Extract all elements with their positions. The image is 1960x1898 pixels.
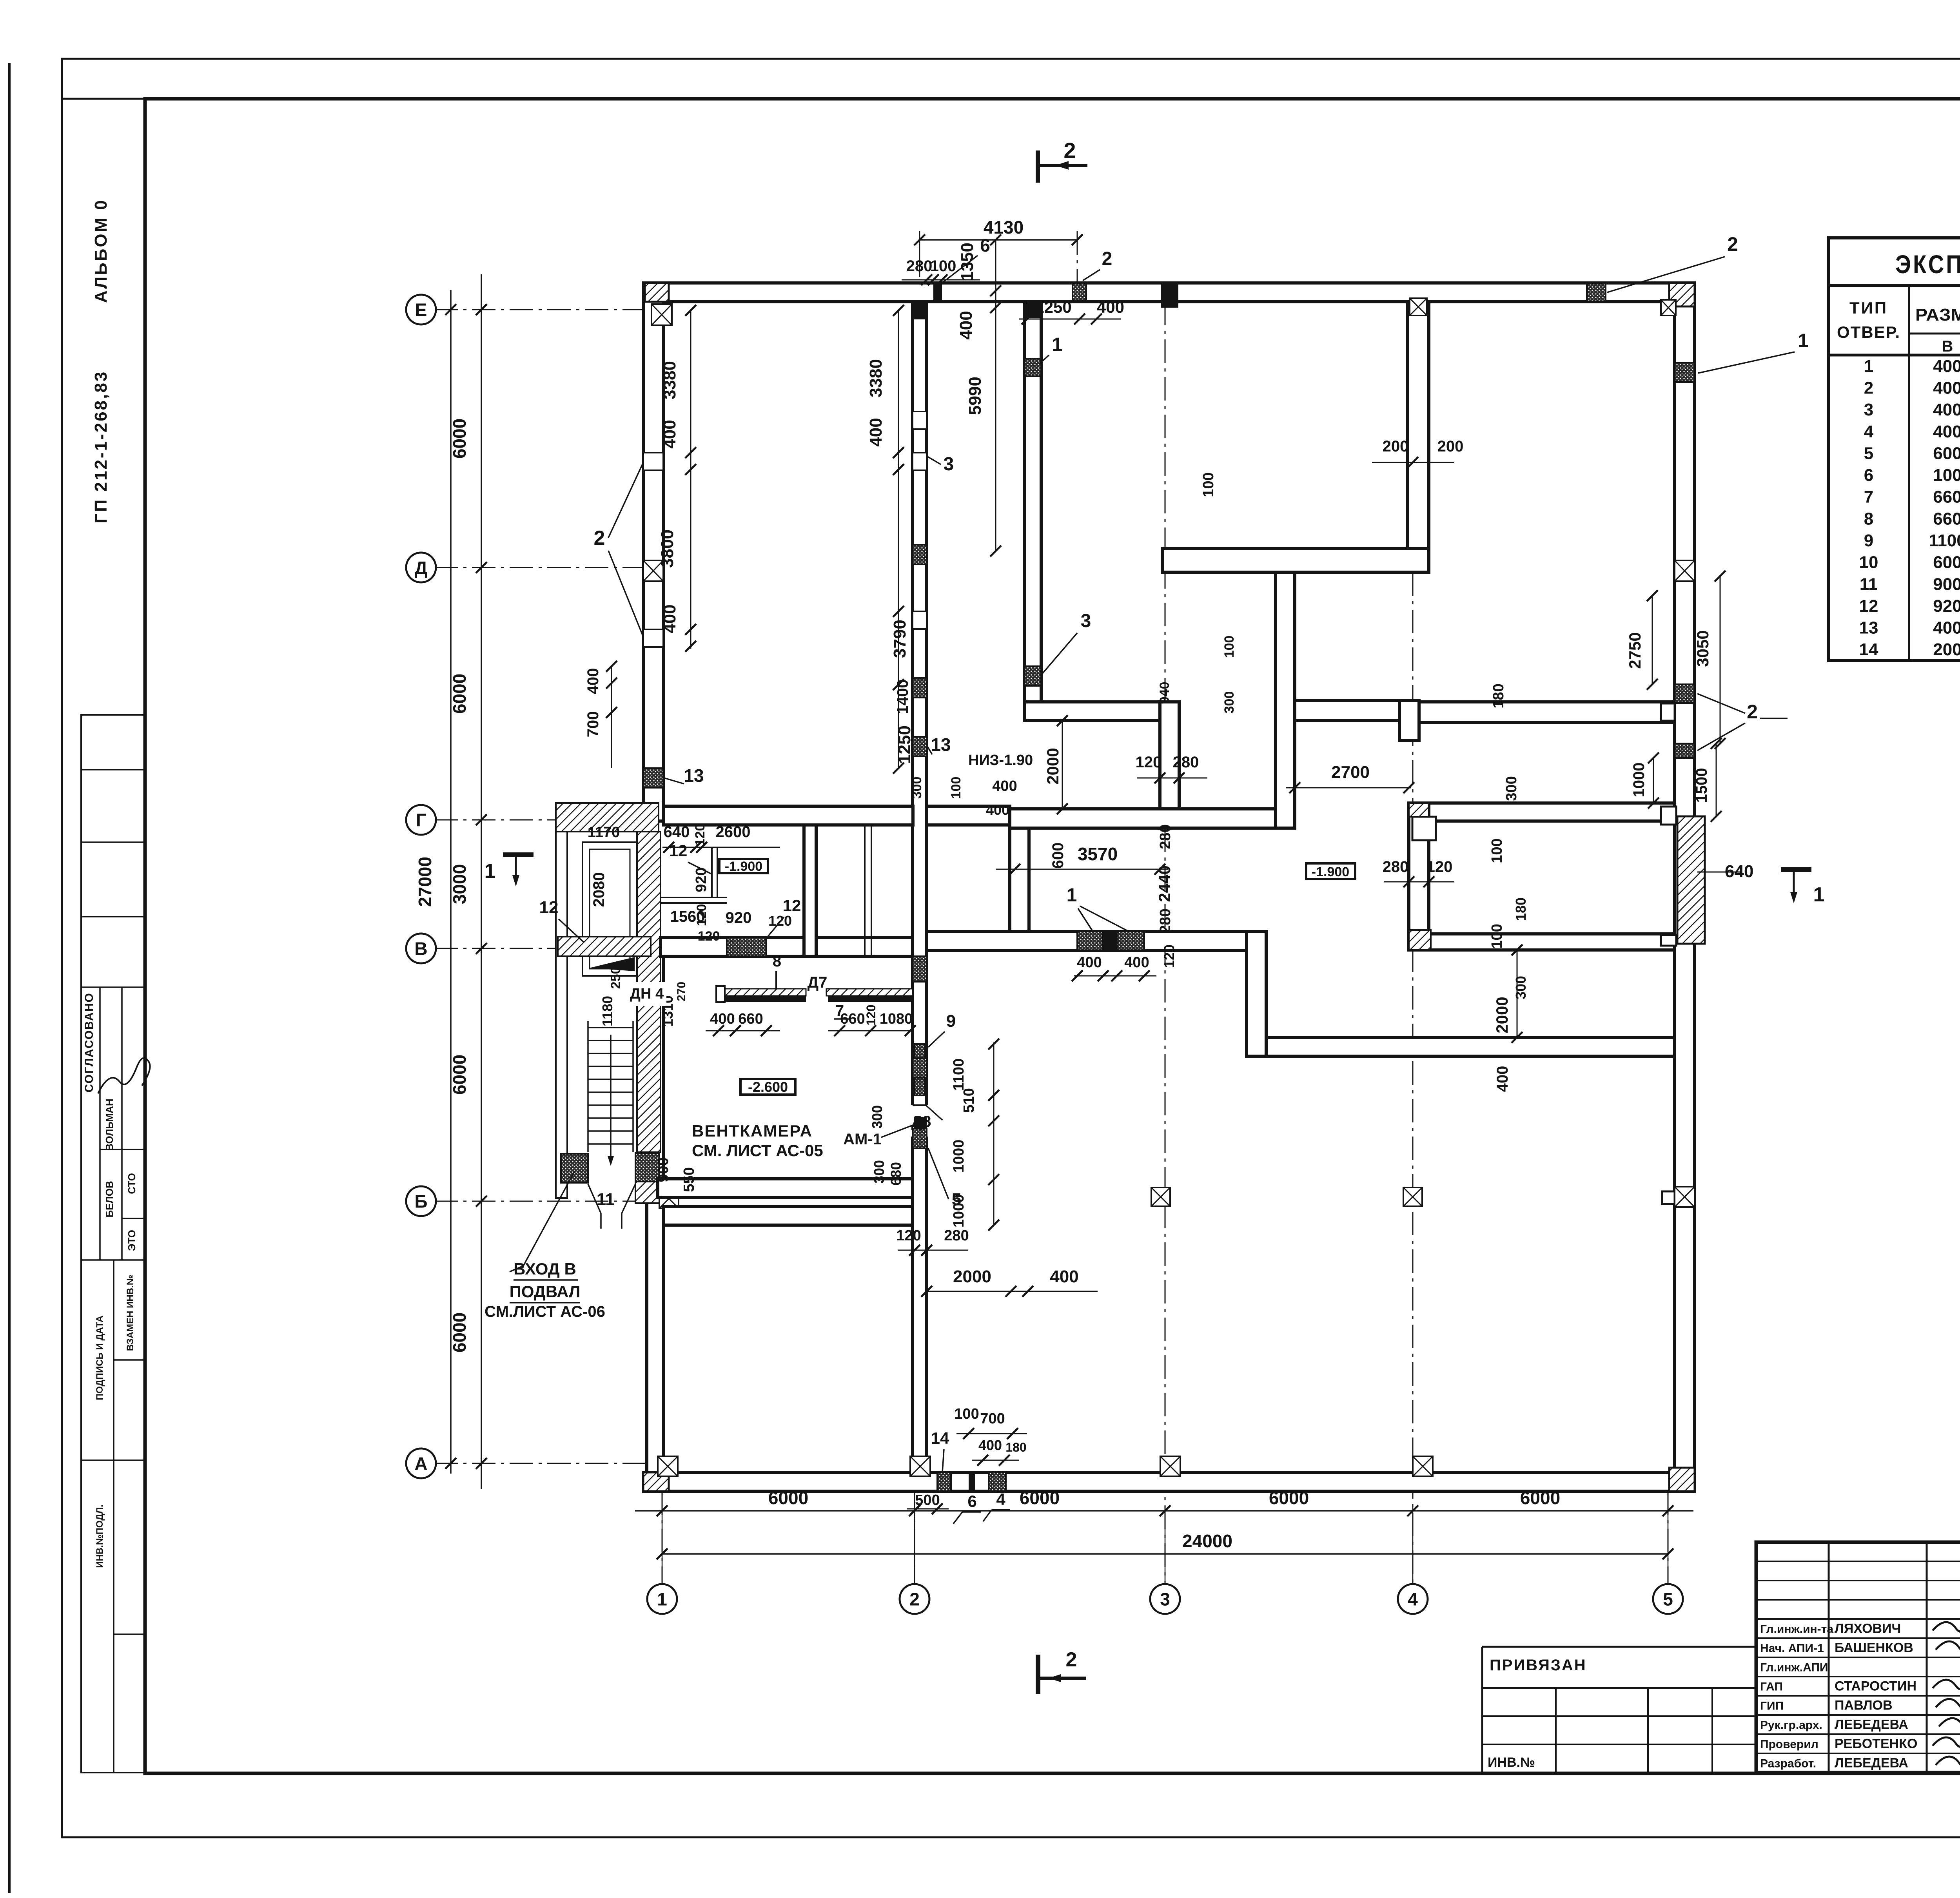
axis dash-dot lines vertical (1165, 302, 1166, 1583)
svg-text:Д7: Д7 (808, 974, 828, 991)
svg-text:400: 400 (1933, 378, 1960, 397)
svg-text:12: 12 (783, 896, 801, 915)
svg-text:2: 2 (909, 1589, 920, 1610)
svg-text:200: 200 (1437, 438, 1464, 455)
svg-text:Б: Б (414, 1191, 427, 1212)
svg-text:1180: 1180 (599, 996, 615, 1026)
bottom dimension chain (635, 1510, 1693, 1512)
vent room partition b (864, 825, 866, 956)
svg-text:400: 400 (1933, 400, 1960, 419)
bottom exterior wall (643, 1472, 1695, 1491)
small room lines (661, 897, 727, 898)
vent duct bars 7 8 (721, 989, 806, 996)
svg-text:ОТВЕР.: ОТВЕР. (1837, 323, 1900, 341)
svg-text:2: 2 (1102, 248, 1112, 269)
hall top wall left part (663, 1206, 913, 1225)
svg-text:ЛЕБЕДЕВА: ЛЕБЕДЕВА (1835, 1756, 1908, 1771)
svg-text:300: 300 (1513, 976, 1529, 999)
svg-text:120: 120 (1136, 754, 1162, 771)
svg-text:1: 1 (485, 860, 496, 883)
svg-text:900: 900 (655, 1157, 671, 1182)
porch room outline (583, 842, 637, 976)
svg-text:2000: 2000 (1044, 748, 1062, 784)
svg-text:6000: 6000 (449, 674, 470, 714)
svg-text:6: 6 (980, 235, 990, 256)
svg-text:Нач. АПИ-1: Нач. АПИ-1 (1760, 1642, 1824, 1655)
svg-text:12: 12 (669, 841, 688, 860)
svg-text:ЭТО: ЭТО (126, 1230, 138, 1251)
svg-text:ГАП: ГАП (1760, 1680, 1783, 1693)
hall top wall B (1266, 1037, 1675, 1056)
svg-text:120: 120 (1161, 944, 1177, 968)
right wall stubs (1661, 703, 1675, 721)
svg-text:1: 1 (1798, 330, 1809, 351)
svg-text:400: 400 (992, 778, 1017, 794)
stamp column box (81, 715, 145, 1773)
svg-text:1080: 1080 (880, 1011, 913, 1027)
svg-text:400: 400 (1097, 298, 1124, 316)
svg-text:СТАРОСТИН: СТАРОСТИН (1835, 1679, 1916, 1694)
top wall opening type2 (1587, 283, 1606, 302)
svg-text:900: 900 (1933, 575, 1960, 594)
stamp signature (98, 1058, 150, 1093)
svg-text:Д8: Д8 (911, 1113, 931, 1130)
svg-text:СТО: СТО (126, 1173, 138, 1194)
svg-text:11: 11 (597, 1190, 615, 1209)
svg-text:Г: Г (416, 810, 426, 830)
svg-text:400: 400 (1933, 422, 1960, 441)
svg-text:120: 120 (694, 904, 709, 926)
vent chamber bottom wall (658, 1179, 913, 1198)
columns (1151, 1187, 1170, 1206)
svg-text:660: 660 (840, 1011, 865, 1027)
svg-text:4: 4 (1408, 1589, 1418, 1610)
svg-text:200: 200 (1383, 438, 1409, 455)
svg-text:СМ.ЛИСТ АС-06: СМ.ЛИСТ АС-06 (485, 1303, 605, 1320)
svg-text:13: 13 (684, 765, 704, 786)
svg-text:ТИП: ТИП (1849, 299, 1888, 317)
svg-text:5990: 5990 (965, 377, 985, 415)
svg-text:400: 400 (584, 668, 602, 694)
svg-text:СМ. ЛИСТ АС-05: СМ. ЛИСТ АС-05 (692, 1141, 823, 1160)
svg-text:300: 300 (869, 1105, 885, 1129)
bottom wall openings (937, 1472, 951, 1491)
hall jog wall (1247, 932, 1266, 1056)
svg-text:ВХОД В: ВХОД В (514, 1260, 576, 1278)
svg-text:660: 660 (1933, 488, 1960, 507)
svg-text:300: 300 (871, 1160, 887, 1184)
svg-text:100: 100 (949, 777, 964, 799)
svg-text:2: 2 (1063, 138, 1076, 163)
svg-text:2440: 2440 (1155, 865, 1174, 902)
svg-text:ПАВЛОВ: ПАВЛОВ (1835, 1698, 1893, 1713)
stair bottom blocks (561, 1154, 588, 1183)
svg-text:ЭКСПЛИКАЦИЯ ОТВЕРСТИЙ: ЭКСПЛИКАЦИЯ ОТВЕРСТИЙ (1895, 249, 1960, 279)
svg-text:3000: 3000 (449, 864, 470, 904)
svg-text:13: 13 (931, 734, 951, 755)
svg-text:940: 940 (1157, 682, 1172, 704)
svg-text:13: 13 (1859, 618, 1878, 638)
svg-text:680: 680 (888, 1162, 904, 1186)
svg-text:3: 3 (944, 454, 954, 475)
svg-text:9: 9 (946, 1012, 956, 1031)
svg-text:1350: 1350 (958, 243, 977, 281)
top dim 4130 (920, 239, 1077, 241)
right room inner duct (1412, 817, 1436, 840)
svg-text:180: 180 (1490, 683, 1507, 708)
svg-text:920: 920 (1933, 596, 1960, 616)
section flag 1 left (503, 852, 534, 857)
svg-text:ЛЕБЕДЕВА: ЛЕБЕДЕВА (1835, 1717, 1908, 1732)
wall V5 (1010, 828, 1029, 950)
svg-text:400: 400 (1933, 618, 1960, 638)
B interior wall (661, 937, 913, 956)
axis2 wall dim string B (898, 310, 899, 768)
svg-text:300: 300 (909, 777, 924, 799)
svg-text:3800: 3800 (658, 529, 677, 568)
channel wall H1b (1295, 700, 1399, 721)
dim 1250 400 top (1019, 319, 1121, 320)
channel step (1399, 700, 1419, 741)
svg-text:4: 4 (1864, 422, 1874, 441)
channel wall H1 (1024, 702, 1179, 721)
svg-text:200: 200 (1933, 640, 1960, 659)
axis dash-dot lines horizontal (434, 309, 651, 310)
section flag 2 bottom (1036, 1655, 1040, 1694)
svg-text:920: 920 (726, 909, 752, 926)
stair chute (588, 1184, 601, 1213)
left dimension chain (481, 274, 482, 1489)
svg-text:300: 300 (1503, 776, 1520, 801)
svg-text:3790: 3790 (890, 620, 909, 658)
svg-text:1000: 1000 (951, 1195, 967, 1228)
svg-text:1: 1 (1052, 334, 1063, 355)
svg-text:3380: 3380 (660, 361, 679, 399)
svg-text:БЕЛОВ: БЕЛОВ (103, 1181, 115, 1217)
svg-text:РЕБОТЕНКО: РЕБОТЕНКО (1835, 1737, 1917, 1751)
top band line (62, 98, 1960, 100)
svg-text:10: 10 (1859, 553, 1878, 572)
svg-text:24000: 24000 (1182, 1531, 1232, 1551)
svg-text:100: 100 (1489, 838, 1505, 863)
svg-text:1250: 1250 (1035, 298, 1071, 316)
svg-text:6: 6 (1864, 466, 1873, 485)
hatched corners (645, 283, 669, 302)
section flag 1 right (1781, 867, 1811, 872)
bottom overall dim (662, 1553, 1668, 1555)
dims 400 700 left (611, 666, 612, 768)
left exterior wall lower (647, 944, 663, 1491)
svg-text:3: 3 (1160, 1589, 1170, 1610)
svg-text:400: 400 (1077, 954, 1102, 971)
svg-text:400: 400 (866, 418, 886, 446)
svg-text:2000: 2000 (953, 1267, 991, 1286)
svg-text:НИЗ-1.90: НИЗ-1.90 (968, 752, 1033, 769)
svg-text:ГП 212-1-268,83: ГП 212-1-268,83 (91, 370, 111, 524)
svg-text:100: 100 (954, 1406, 979, 1422)
svg-text:280: 280 (1157, 824, 1174, 849)
svg-text:1: 1 (1864, 357, 1873, 376)
svg-text:400: 400 (660, 604, 679, 633)
svg-text:ДН 4: ДН 4 (630, 986, 664, 1002)
right room left wall V6 (1409, 803, 1429, 950)
svg-text:-2.600: -2.600 (748, 1079, 788, 1095)
svg-text:3570: 3570 (1078, 844, 1118, 864)
svg-text:-1.900: -1.900 (725, 859, 762, 874)
svg-text:6000: 6000 (449, 419, 470, 459)
level -1.900 left (719, 859, 768, 873)
svg-text:4130: 4130 (984, 217, 1024, 237)
opening 9 in axis2 wall (914, 1044, 925, 1095)
svg-text:ПРИВЯЗАН: ПРИВЯЗАН (1490, 1657, 1587, 1674)
scan edge line (8, 63, 11, 1893)
svg-text:400: 400 (710, 1011, 735, 1027)
svg-text:Е: Е (415, 300, 427, 320)
svg-text:8: 8 (773, 953, 781, 970)
svg-text:270: 270 (675, 982, 688, 1001)
channel wall H1c (1419, 702, 1675, 722)
svg-text:280: 280 (1173, 754, 1199, 771)
svg-text:1400: 1400 (894, 680, 911, 714)
svg-text:6: 6 (967, 1492, 976, 1510)
svg-text:ПОДВАЛ: ПОДВАЛ (510, 1282, 581, 1301)
svg-text:1000: 1000 (951, 1140, 967, 1173)
svg-text:АМ-1: АМ-1 (843, 1131, 882, 1148)
svg-text:ГИП: ГИП (1760, 1700, 1784, 1713)
left overall dim (450, 290, 452, 1474)
left exterior wall upper (643, 283, 663, 821)
svg-text:БАШЕНКОВ: БАШЕНКОВ (1835, 1641, 1913, 1655)
svg-text:400: 400 (978, 1437, 1002, 1453)
svg-text:1: 1 (1813, 883, 1825, 906)
dim 2700 (1286, 787, 1411, 789)
svg-text:А: А (414, 1454, 427, 1474)
svg-text:1: 1 (657, 1589, 667, 1610)
svg-text:400: 400 (986, 802, 1009, 818)
wall V2 (1024, 302, 1041, 721)
svg-text:3380: 3380 (866, 359, 886, 397)
svg-text:2750: 2750 (1626, 632, 1644, 669)
svg-text:Гл.инж.АПИ: Гл.инж.АПИ (1760, 1661, 1828, 1674)
svg-text:Разработ.: Разработ. (1760, 1757, 1816, 1770)
svg-text:2: 2 (1747, 701, 1758, 723)
svg-text:640: 640 (664, 823, 690, 841)
svg-text:1500: 1500 (1693, 768, 1710, 803)
dim 3570 (996, 869, 1168, 870)
svg-text:12: 12 (539, 898, 559, 917)
svg-text:280: 280 (906, 257, 933, 275)
svg-text:6000: 6000 (449, 1055, 470, 1095)
svg-text:400: 400 (956, 311, 976, 339)
svg-text:7: 7 (1864, 488, 1873, 507)
svg-text:2: 2 (1727, 233, 1738, 255)
svg-text:1000: 1000 (1630, 763, 1648, 798)
axis circles bottom (647, 1584, 677, 1614)
door wedge DN4 (589, 957, 635, 971)
svg-text:СОГЛАСОВАНО: СОГЛАСОВАНО (83, 992, 96, 1093)
crossed squares walls (643, 560, 663, 581)
top exterior wall (645, 283, 1695, 302)
svg-text:ВОЛЬМАН: ВОЛЬМАН (103, 1099, 115, 1151)
svg-text:100: 100 (1222, 636, 1237, 658)
svg-text:2600: 2600 (716, 823, 751, 841)
svg-text:ИНВ.№: ИНВ.№ (1488, 1755, 1535, 1770)
svg-text:400: 400 (1124, 954, 1149, 971)
svg-text:3050: 3050 (1693, 630, 1712, 667)
svg-text:3: 3 (1081, 611, 1091, 631)
svg-text:14: 14 (1859, 640, 1878, 659)
svg-text:400: 400 (1933, 357, 1960, 376)
axis2 wall openings (913, 412, 927, 429)
svg-text:700: 700 (980, 1410, 1005, 1427)
svg-text:120: 120 (864, 1004, 878, 1025)
right exterior wall (1675, 283, 1695, 1491)
svg-text:180: 180 (1513, 897, 1529, 921)
left wall openings (643, 453, 663, 470)
V2 wall openings (1024, 359, 1041, 376)
svg-text:ПОДПИСЬ И ДАТА: ПОДПИСЬ И ДАТА (94, 1316, 105, 1400)
svg-text:ВЕНТКАМЕРА: ВЕНТКАМЕРА (692, 1122, 813, 1140)
svg-text:100: 100 (930, 257, 956, 275)
left wall dim string A (690, 310, 691, 649)
svg-text:В: В (1942, 338, 1953, 355)
title block outer (1756, 1542, 1960, 1773)
string C near V2 (995, 240, 996, 551)
svg-text:5: 5 (1663, 1589, 1673, 1610)
svg-text:4: 4 (996, 1490, 1005, 1508)
svg-text:2: 2 (594, 527, 605, 549)
level -1.900 right (1306, 863, 1355, 879)
svg-text:280: 280 (1383, 858, 1409, 876)
right room bottom wall H5 (1409, 934, 1675, 950)
hall top wall A (927, 932, 1247, 950)
svg-text:280: 280 (944, 1227, 969, 1244)
svg-text:Гл.инж.ин-та: Гл.инж.ин-та (1760, 1623, 1833, 1636)
svg-text:Рук.гр.арх.: Рук.гр.арх. (1760, 1719, 1822, 1732)
svg-text:2000: 2000 (1493, 997, 1511, 1033)
mid partition (1163, 548, 1429, 572)
svg-text:100: 100 (1200, 472, 1217, 497)
svg-text:-1.900: -1.900 (1312, 865, 1349, 879)
svg-text:12: 12 (1859, 596, 1878, 616)
svg-text:1: 1 (1067, 885, 1077, 906)
svg-text:9: 9 (1864, 531, 1873, 550)
svg-text:280: 280 (1157, 908, 1174, 933)
svg-text:510: 510 (961, 1088, 977, 1113)
porch slab G hatched (556, 803, 659, 832)
axis circles left (406, 295, 436, 324)
right pilaster 640 (1677, 816, 1705, 944)
svg-text:660: 660 (1933, 509, 1960, 528)
svg-text:2700: 2700 (1331, 763, 1370, 782)
svg-text:6000: 6000 (449, 1312, 470, 1352)
svg-text:180: 180 (1005, 1440, 1026, 1454)
svg-text:2080: 2080 (590, 872, 608, 907)
svg-text:120: 120 (1426, 858, 1453, 876)
svg-text:В: В (414, 939, 427, 959)
bottom extension lines (662, 1505, 663, 1583)
channel wall H3 (1409, 803, 1675, 821)
svg-text:ИНВ.№ПОДЛ.: ИНВ.№ПОДЛ. (94, 1505, 105, 1568)
axis-2 interior wall (913, 302, 927, 1472)
svg-text:5: 5 (1864, 444, 1873, 463)
svg-text:11: 11 (1860, 575, 1878, 594)
svg-text:400: 400 (1050, 1267, 1078, 1286)
svg-text:Проверил: Проверил (1760, 1738, 1818, 1751)
stairs (587, 1021, 589, 1152)
right wall openings (1675, 363, 1695, 382)
svg-text:100: 100 (1489, 924, 1505, 948)
svg-text:8: 8 (1864, 509, 1873, 528)
svg-text:1250: 1250 (895, 725, 914, 764)
svg-text:100: 100 (1933, 466, 1960, 485)
openings table outer (1828, 238, 1960, 660)
axis-4 partition (1407, 302, 1429, 572)
svg-text:600: 600 (1933, 444, 1960, 463)
svg-text:РАЗМЕРЫ (ММ): РАЗМЕРЫ (ММ) (1915, 305, 1960, 324)
svg-text:300: 300 (1222, 691, 1237, 714)
svg-text:1170: 1170 (588, 824, 620, 841)
svg-text:1100: 1100 (951, 1059, 967, 1091)
svg-text:2: 2 (1864, 378, 1873, 397)
svg-text:14: 14 (931, 1429, 949, 1447)
svg-text:120: 120 (896, 1227, 921, 1244)
top wall opening type2 near flag (1073, 283, 1086, 301)
hall top openings (1077, 932, 1103, 950)
vent room partition a (804, 825, 816, 956)
svg-text:АЛЬБОМ 0: АЛЬБОМ 0 (91, 199, 111, 303)
svg-text:2: 2 (1066, 1648, 1077, 1671)
svg-text:600: 600 (1933, 553, 1960, 572)
door D8 gap (911, 1105, 928, 1137)
svg-text:250: 250 (608, 967, 623, 989)
stair outer wall (556, 832, 567, 1198)
svg-text:Д: Д (415, 558, 428, 578)
V slab west hatched (558, 937, 651, 956)
svg-text:ЛЯХОВИЧ: ЛЯХОВИЧ (1835, 1621, 1901, 1636)
privyazan block (1482, 1646, 1756, 1648)
wall V3 (1160, 702, 1179, 828)
svg-text:700: 700 (584, 711, 602, 738)
svg-text:400: 400 (660, 420, 679, 448)
svg-text:3: 3 (1864, 400, 1873, 419)
hatched pier (637, 832, 661, 1152)
svg-text:660: 660 (738, 1011, 763, 1027)
svg-text:600: 600 (1049, 843, 1067, 869)
gamma wall / H2 (663, 806, 913, 825)
svg-text:ВЗАМЕН ИНВ.№: ВЗАМЕН ИНВ.№ (125, 1275, 136, 1351)
svg-text:27000: 27000 (415, 857, 435, 907)
black squares under top wall (652, 304, 672, 325)
svg-text:400: 400 (1494, 1066, 1511, 1092)
200 200 marks axis4 (1372, 462, 1454, 463)
svg-text:1100: 1100 (1929, 531, 1960, 550)
svg-text:120: 120 (698, 929, 720, 944)
section flag 2 top (1036, 150, 1040, 183)
svg-text:550: 550 (681, 1167, 697, 1192)
wall V4 (1276, 572, 1295, 828)
